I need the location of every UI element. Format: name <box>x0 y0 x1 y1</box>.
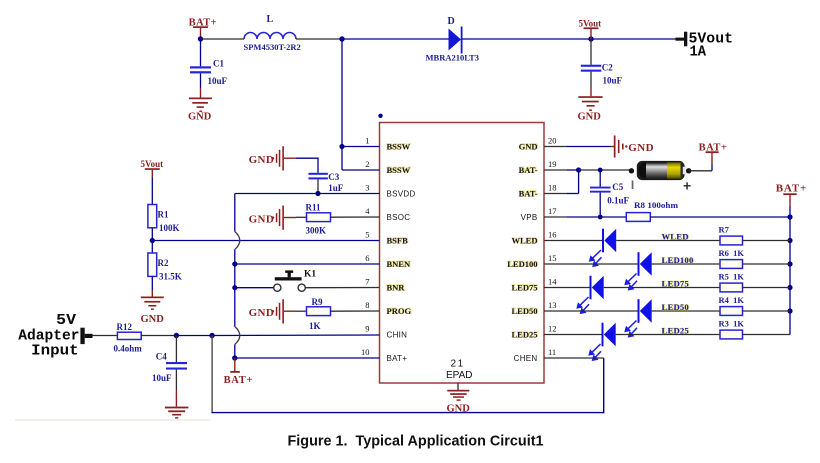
svg-text:BAT+: BAT+ <box>699 143 728 154</box>
svg-text:C1: C1 <box>213 59 224 69</box>
svg-text:BAT+: BAT+ <box>387 354 408 363</box>
pin 20 GND <box>519 136 567 152</box>
svg-text:CHEN: CHEN <box>514 354 538 363</box>
svg-text:5Vout: 5Vout <box>579 19 602 29</box>
svg-text:0.4ohm: 0.4ohm <box>114 344 143 354</box>
pin 10 BAT+ <box>361 347 407 363</box>
wire battery to BAT+ tick <box>689 153 712 171</box>
svg-text:R4 1K: R4 1K <box>719 295 745 305</box>
svg-text:17: 17 <box>548 206 557 216</box>
svg-text:0.1uF: 0.1uF <box>607 196 629 206</box>
node C3 to BSVDD junction <box>315 191 320 196</box>
svg-text:R1: R1 <box>158 210 169 220</box>
wire R11 to pin4 <box>331 216 380 218</box>
svg-text:BSSW: BSSW <box>387 141 411 151</box>
capacitor C1 <box>190 39 228 98</box>
LED D12 LED25 <box>589 323 615 360</box>
svg-text:LED100: LED100 <box>662 255 694 265</box>
wire CHIN pin9 <box>212 334 379 337</box>
svg-text:LED50: LED50 <box>662 302 689 312</box>
svg-text:5: 5 <box>365 230 369 240</box>
svg-text:C3: C3 <box>328 172 339 182</box>
wire to CHEN loop junction <box>176 335 212 337</box>
pin 14 LED75 <box>512 277 567 293</box>
svg-text:D: D <box>448 16 455 27</box>
IC U1 body <box>380 123 545 384</box>
wire R to rail <box>743 240 791 242</box>
wire pin19 to battery <box>579 169 631 171</box>
svg-text:LED25: LED25 <box>662 326 689 336</box>
node 5V Adapter Input terminal <box>18 312 92 360</box>
pin 5 BSFB <box>365 230 408 246</box>
capacitor C2 <box>581 39 623 96</box>
capacitor C3 1uF <box>308 172 343 194</box>
ground below R2 <box>141 297 165 326</box>
svg-text:R7: R7 <box>719 225 730 235</box>
svg-text:GND: GND <box>578 112 602 123</box>
svg-text:VPB: VPB <box>521 213 538 222</box>
svg-text:LED50: LED50 <box>512 306 538 316</box>
pin 2 BSSW <box>365 159 411 175</box>
svg-text:BSVDD: BSVDD <box>387 189 416 198</box>
svg-text:R11: R11 <box>306 203 322 213</box>
node BAT+ supply tick bottom <box>224 358 254 386</box>
svg-text:13: 13 <box>548 300 557 310</box>
pin 19 BAT- <box>519 159 567 175</box>
LED D14 LED75 <box>577 276 603 313</box>
node C5 bottom junction VPB <box>598 215 603 220</box>
wire switch node to diode <box>342 38 449 40</box>
svg-text:PROG: PROG <box>387 306 412 316</box>
pin 17 VPB <box>521 206 567 222</box>
diode D MBRA210LT3 <box>426 16 480 63</box>
node BNEN junction <box>232 261 237 266</box>
svg-text:11: 11 <box>548 347 556 357</box>
wire switch node down to BSSW pins <box>339 39 379 170</box>
wire R1 to R2 <box>151 228 153 253</box>
wire bottom loop to CHEN <box>211 336 603 414</box>
svg-text:BAT-: BAT- <box>519 165 538 175</box>
svg-text:Input: Input <box>31 343 79 360</box>
svg-text:300K: 300K <box>306 225 327 235</box>
capacitor C4 10uF <box>152 336 187 407</box>
svg-text:BAT+: BAT+ <box>224 375 254 386</box>
svg-text:3: 3 <box>365 183 369 193</box>
svg-text:R8 100ohm: R8 100ohm <box>634 200 678 210</box>
svg-text:16: 16 <box>548 230 557 240</box>
pin 4 BSOC <box>365 206 410 222</box>
wire R9 to pin8 <box>331 310 380 312</box>
wire R to rail <box>743 334 791 336</box>
svg-text:LED25: LED25 <box>512 329 538 339</box>
ground below C1 <box>188 98 212 123</box>
svg-text:BNEN: BNEN <box>387 259 411 269</box>
svg-text:BSSW: BSSW <box>387 165 411 175</box>
wire pin14 to LED <box>567 287 591 289</box>
battery B1 <box>629 161 692 194</box>
LED D16 WLED <box>590 229 616 266</box>
svg-text:R3 1K: R3 1K <box>719 319 745 329</box>
svg-text:WLED: WLED <box>512 235 538 245</box>
wire gnd to C3 <box>296 158 318 173</box>
svg-text:R5 1K: R5 1K <box>719 272 745 282</box>
svg-text:+: + <box>683 178 691 194</box>
wire gnd to R11 <box>296 216 307 218</box>
resistor R9 1K <box>307 297 331 331</box>
svg-text:EPAD: EPAD <box>446 370 473 381</box>
svg-text:9: 9 <box>365 324 369 334</box>
svg-text:10uF: 10uF <box>603 76 623 86</box>
svg-text:7: 7 <box>365 277 369 287</box>
svg-text:GND: GND <box>249 213 275 225</box>
svg-text:15: 15 <box>548 253 557 263</box>
svg-text:BAT-: BAT- <box>519 188 538 198</box>
svg-text:BAT+: BAT+ <box>776 182 807 194</box>
wire R2 to ground <box>151 276 153 296</box>
ground GND rotated at R9 <box>249 299 296 323</box>
pin 11 CHEN <box>514 347 567 363</box>
node 5Vout supply tick <box>579 19 602 40</box>
svg-text:14: 14 <box>548 277 557 287</box>
node net label LED75 <box>662 278 690 288</box>
svg-text:2: 2 <box>365 159 369 169</box>
svg-text:6: 6 <box>365 253 369 263</box>
svg-text:R2: R2 <box>158 258 169 268</box>
node switch junction <box>339 36 344 41</box>
wire R to rail <box>743 310 791 312</box>
pin 12 LED25 <box>512 324 567 340</box>
node net label LED100 <box>662 255 695 265</box>
wire BSFB pin5 <box>152 240 379 242</box>
svg-text:WLED: WLED <box>662 232 689 242</box>
ground below C4 <box>165 407 189 419</box>
svg-text:GND: GND <box>628 142 654 154</box>
node feedback junction <box>150 238 155 243</box>
ground GND rotated at R11 <box>249 206 296 230</box>
wire LED to R14 <box>604 287 720 289</box>
resistor R1 100K <box>148 205 180 234</box>
wire VPB pin17 to R8 <box>567 216 626 218</box>
node C5 top junction <box>598 168 603 173</box>
pin 21 EPAD label <box>446 359 473 381</box>
wire pin19 pin18 tie <box>567 167 581 193</box>
wire pin20 to ground <box>567 146 611 148</box>
svg-text:5Vout: 5Vout <box>141 159 164 169</box>
svg-text:19: 19 <box>548 159 557 169</box>
svg-text:K1: K1 <box>304 269 316 279</box>
pin 7 BNR <box>365 277 406 293</box>
pin 15 LED100 <box>507 253 567 269</box>
svg-text:8: 8 <box>365 300 369 310</box>
svg-text:21: 21 <box>451 359 465 370</box>
resistor R3 1K <box>719 319 745 339</box>
svg-text:MBRA210LT3: MBRA210LT3 <box>426 53 480 63</box>
svg-text:LED100: LED100 <box>507 259 537 269</box>
svg-text:GND: GND <box>249 307 275 319</box>
svg-text:GND: GND <box>249 154 275 166</box>
node CHEN loop junction <box>209 333 214 338</box>
svg-text:C5: C5 <box>612 182 623 192</box>
node BAT+ supply rail tick <box>776 182 807 206</box>
svg-text:20: 20 <box>548 136 557 146</box>
svg-text:18: 18 <box>548 183 557 193</box>
wire BSVDD pin3 <box>235 193 380 195</box>
wire BAT+ pin10 <box>235 357 380 359</box>
svg-text:BSOC: BSOC <box>387 213 411 222</box>
wire gnd to R9 <box>296 310 307 312</box>
svg-text:10: 10 <box>361 347 370 357</box>
wire LED to R15 <box>652 263 720 265</box>
node BAT+ tick battery <box>699 143 728 154</box>
wire 5Vout to R1 <box>151 178 153 205</box>
pin 13 LED50 <box>512 300 567 316</box>
svg-text:GND: GND <box>188 112 212 123</box>
svg-text:LED75: LED75 <box>512 282 538 292</box>
resistor R5 1K <box>719 272 745 292</box>
wire BAT+ vertical with hops <box>235 194 240 359</box>
ground GND rotated at C3 <box>249 146 296 170</box>
pin 9 CHIN <box>365 324 407 340</box>
svg-text:SPM4530T-2R2: SPM4530T-2R2 <box>244 42 301 52</box>
resistor R11 300K <box>306 203 331 236</box>
wire pin13 to LED <box>567 310 639 312</box>
svg-text:C4: C4 <box>156 352 167 362</box>
node rail junctions <box>787 214 792 313</box>
pin 18 BAT- <box>519 183 567 199</box>
pin 8 PROG <box>365 300 412 316</box>
svg-text:LED75: LED75 <box>662 279 689 289</box>
node C4 junction <box>174 333 179 338</box>
output terminal 5Vout 1A <box>676 31 734 61</box>
resistor R6 1K <box>719 248 745 268</box>
svg-text:12: 12 <box>548 324 557 334</box>
wire pin16 to LED <box>567 240 603 242</box>
svg-text:1uF: 1uF <box>328 183 344 193</box>
ground EPAD <box>447 383 471 415</box>
wire R to rail <box>743 263 791 265</box>
node pin1 marker <box>378 114 382 118</box>
svg-text:BNR: BNR <box>387 282 406 292</box>
wire LED to R12 <box>616 334 720 336</box>
ground below C2 <box>578 96 603 122</box>
svg-text:R9: R9 <box>312 297 323 307</box>
svg-text:1: 1 <box>365 136 369 146</box>
svg-text:C2: C2 <box>602 63 613 73</box>
resistor R12 0.4ohm <box>114 322 143 354</box>
wire BNEN pin6 <box>235 263 380 265</box>
svg-text:R12: R12 <box>117 322 133 332</box>
inductor L SPM4530T-2R2 <box>244 14 301 52</box>
wire LED to R13 <box>652 310 720 312</box>
node 5Vout supply left <box>141 159 164 178</box>
wire R to rail <box>743 287 791 289</box>
node net label LED25 <box>662 325 690 335</box>
wire R12 to C4 junction <box>141 335 176 337</box>
capacitor C5 0.1uF <box>590 170 630 217</box>
svg-text:R6 1K: R6 1K <box>719 248 745 258</box>
wire BAT+ to inductor <box>201 38 245 40</box>
node K1 junction <box>232 285 237 290</box>
resistor R8 100ohm <box>626 200 678 221</box>
wire LED to R16 <box>616 240 720 242</box>
node BAT+ top-left supply <box>189 17 217 41</box>
wire R8 to BAT+ rail <box>650 216 790 218</box>
wire terminal to R12 <box>93 335 118 337</box>
svg-text:10uF: 10uF <box>208 76 228 86</box>
ground GND rotated at pin20 <box>611 136 654 158</box>
wire pin15 to LED <box>567 263 639 265</box>
LED D13 LED50 <box>625 299 651 336</box>
svg-text:31.5K: 31.5K <box>159 272 182 282</box>
node net label LED50 <box>662 302 690 312</box>
resistor R7 <box>719 225 743 245</box>
wire inductor to switch node <box>296 38 342 40</box>
svg-text:10uF: 10uF <box>152 373 172 383</box>
resistor R2 31.5K <box>148 253 182 282</box>
svg-text:GND: GND <box>519 141 538 151</box>
wire CHEN pin11 <box>567 357 604 359</box>
svg-text:Figure 1. Typical Application: Figure 1. Typical Application Circuit1 <box>288 433 544 450</box>
svg-text:GND: GND <box>141 314 165 325</box>
wire diode to output <box>463 38 683 40</box>
svg-text:1A: 1A <box>690 43 707 60</box>
wire BAT+ rail vertical <box>789 206 791 335</box>
pin 3 BSVDD <box>365 183 415 199</box>
svg-text:100K: 100K <box>159 223 180 233</box>
wire pin12 to LED <box>567 334 603 336</box>
LED D15 LED100 <box>625 252 651 289</box>
node net label WLED <box>662 231 690 241</box>
pin 16 WLED <box>512 230 567 246</box>
pin 1 BSSW <box>365 136 411 152</box>
resistor R4 1K <box>719 295 745 315</box>
svg-text:L: L <box>267 14 274 25</box>
svg-text:BSFB: BSFB <box>387 235 409 245</box>
switch K1 <box>235 269 380 291</box>
svg-text:1K: 1K <box>309 321 321 331</box>
pin 6 BNEN <box>365 253 411 269</box>
node 5Vout junction <box>588 36 593 41</box>
svg-text:CHIN: CHIN <box>387 330 408 339</box>
node BAT+ junction pin10 <box>232 355 237 360</box>
